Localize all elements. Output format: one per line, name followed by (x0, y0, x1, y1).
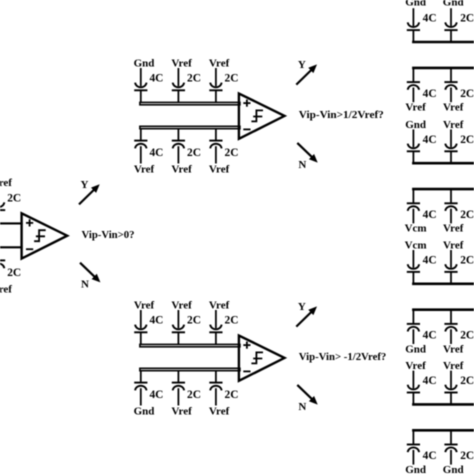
svg-text:Y: Y (81, 179, 89, 191)
capacitor 2C (A4 top cap 2) (444, 371, 457, 405)
capacitor 4C (A2 top cap 1) (407, 129, 420, 163)
svg-text:Vref: Vref (171, 406, 192, 418)
svg-text:Vref: Vref (443, 223, 464, 235)
svg-text:4C: 4C (423, 134, 437, 146)
capacitor 2C (A3 top cap 2) (444, 250, 457, 284)
capacitor 4C (A1 top cap 1) (407, 8, 420, 42)
svg-text:Vref: Vref (405, 360, 426, 372)
capacitor 2C (U2 bottom cap 3) (209, 129, 222, 164)
svg-text:Gnd: Gnd (405, 119, 426, 131)
svg-text:Vref: Vref (171, 164, 192, 176)
svg-text:Vref: Vref (134, 164, 155, 176)
svg-text:Vref: Vref (405, 102, 426, 114)
capacitor 2C (A4 bottom cap 2) (444, 430, 457, 464)
comparator U2 (239, 94, 285, 139)
arrow N (297, 143, 317, 163)
capacitor 2C (U1 bottom cap 3) (0, 249, 5, 284)
capacitor 4C (A3 bottom cap 1) (407, 310, 420, 344)
capacitor 2C (A2 bottom cap 2) (444, 189, 457, 223)
svg-text:2C: 2C (225, 147, 239, 159)
svg-text:4C: 4C (423, 375, 437, 387)
svg-text:Vref: Vref (0, 177, 12, 189)
capacitor 4C (A3 top cap 1) (407, 250, 420, 284)
stage-3 DAC array A4 (405, 360, 474, 474)
svg-text:Vref: Vref (443, 343, 464, 355)
svg-text:Vref: Vref (171, 299, 192, 311)
capacitor 2C (A2 top cap 2) (444, 129, 457, 163)
wire bottom-plate bus (A4) (412, 429, 474, 432)
capacitor 4C (A4 top cap 1) (407, 371, 420, 405)
svg-text:2C: 2C (225, 315, 239, 327)
stage-2 lower comparator block U3 (134, 299, 387, 417)
svg-text:2C: 2C (460, 209, 474, 221)
wire top-plate bus (A1) (412, 41, 474, 44)
svg-text:4C: 4C (423, 209, 437, 221)
svg-text:2C: 2C (460, 134, 474, 146)
comparator U1 (22, 213, 68, 258)
svg-text:2C: 2C (460, 375, 474, 387)
capacitor 2C (U2 bottom cap 2) (172, 129, 185, 164)
stage-1 comparator block U1 (clipped at left edge) (0, 177, 134, 295)
svg-text:2C: 2C (187, 73, 201, 85)
svg-text:Vref: Vref (209, 164, 230, 176)
svg-text:N: N (298, 401, 306, 413)
svg-text:Vref: Vref (171, 57, 192, 69)
svg-text:4C: 4C (423, 254, 437, 266)
svg-text:Vref: Vref (443, 239, 464, 251)
svg-text:Vref: Vref (209, 299, 230, 311)
capacitor 2C (U3 bottom cap 2) (172, 371, 185, 406)
svg-text:Vip-Vin>0?: Vip-Vin>0? (81, 229, 134, 241)
svg-text:2C: 2C (460, 254, 474, 266)
capacitor 2C (U3 top cap 3) (209, 310, 222, 344)
wire top-plate bus (U2) (140, 102, 240, 104)
svg-text:Gnd: Gnd (405, 0, 426, 8)
wire top-plate bus (U1) (0, 222, 23, 224)
svg-text:Y: Y (298, 301, 306, 313)
svg-text:2C: 2C (225, 73, 239, 85)
wire bottom-plate bus (U3) (140, 368, 240, 370)
svg-text:Vip-Vin> -1/2Vref?: Vip-Vin> -1/2Vref? (299, 351, 387, 363)
arrow N (80, 263, 100, 283)
svg-text:Vref: Vref (134, 299, 155, 311)
capacitor 2C (U2 top cap 2) (172, 68, 185, 102)
svg-text:Gnd: Gnd (405, 343, 426, 355)
stage-2 upper comparator block U2 (134, 57, 384, 175)
svg-text:2C: 2C (460, 450, 474, 462)
svg-text:Gnd: Gnd (443, 0, 464, 8)
wire bottom-plate bus (U1) (0, 246, 23, 248)
svg-text:Vref: Vref (443, 360, 464, 372)
capacitor 2C (A1 top cap 2) (444, 8, 457, 42)
capacitor 2C (A3 bottom cap 2) (444, 310, 457, 344)
svg-text:4C: 4C (423, 13, 437, 25)
svg-text:2C: 2C (7, 193, 21, 205)
capacitor 4C (A1 bottom cap 1) (407, 68, 420, 102)
wire bottom-plate bus (A3) (412, 308, 474, 311)
svg-text:2C: 2C (187, 147, 201, 159)
svg-text:Gnd: Gnd (134, 57, 155, 69)
arrow N (297, 385, 317, 405)
wire top-plate bus (A3) (412, 282, 474, 285)
svg-text:Gnd: Gnd (405, 464, 426, 474)
capacitor 2C (U3 top cap 2) (172, 310, 185, 344)
capacitor 2C (U2 top cap 3) (209, 68, 222, 102)
capacitor 2C (U1 top cap 3) (0, 188, 5, 222)
wire bottom-plate bus (A2) (412, 188, 474, 191)
capacitor 4C (A4 bottom cap 1) (407, 430, 420, 464)
svg-text:4C: 4C (149, 73, 163, 85)
svg-text:2C: 2C (460, 330, 474, 342)
arrow Y (296, 306, 317, 326)
svg-text:4C: 4C (149, 147, 163, 159)
wire top-plate bus (A4) (412, 403, 474, 406)
svg-text:Vref: Vref (209, 57, 230, 69)
capacitor 4C (A2 bottom cap 1) (407, 189, 420, 223)
capacitor 4C (U2 top cap 1) (134, 68, 147, 102)
svg-text:4C: 4C (423, 88, 437, 100)
wire bottom-plate bus (A1) (412, 67, 474, 70)
svg-text:4C: 4C (423, 330, 437, 342)
capacitor 2C (A1 bottom cap 2) (444, 68, 457, 102)
capacitor 4C (U3 bottom cap 1) (134, 371, 147, 406)
svg-text:Vcm: Vcm (405, 223, 427, 235)
svg-text:2C: 2C (460, 13, 474, 25)
svg-text:Gnd: Gnd (134, 406, 155, 418)
capacitor 4C (U2 bottom cap 1) (134, 129, 147, 164)
wire bottom-plate bus (U2) (140, 126, 240, 128)
svg-text:N: N (298, 159, 306, 171)
wire top-plate bus (A2) (412, 162, 474, 165)
svg-text:2C: 2C (187, 389, 201, 401)
svg-text:Gnd: Gnd (443, 464, 464, 474)
svg-text:4C: 4C (423, 450, 437, 462)
svg-text:Y: Y (298, 59, 306, 71)
capacitor 2C (U3 bottom cap 3) (209, 371, 222, 406)
svg-text:Vref: Vref (0, 283, 12, 295)
svg-text:2C: 2C (187, 315, 201, 327)
svg-text:4C: 4C (149, 389, 163, 401)
stage-3 DAC array A3 (405, 239, 474, 355)
arrow Y (296, 64, 317, 84)
wire top-plate bus (U3) (140, 344, 240, 346)
svg-text:Vref: Vref (209, 406, 230, 418)
capacitor 4C (U3 top cap 1) (134, 310, 147, 344)
comparator U3 (239, 336, 285, 381)
svg-text:Vip-Vin>1/2Vref?: Vip-Vin>1/2Vref? (299, 109, 384, 121)
svg-text:2C: 2C (460, 88, 474, 100)
stage-3 DAC array A1 (405, 0, 474, 113)
arrow Y (79, 184, 100, 204)
svg-text:2C: 2C (7, 267, 21, 279)
svg-text:Vref: Vref (443, 102, 464, 114)
svg-text:4C: 4C (149, 315, 163, 327)
svg-text:Vref: Vref (443, 119, 464, 131)
svg-text:2C: 2C (225, 389, 239, 401)
svg-text:N: N (81, 279, 89, 291)
svg-text:Vcm: Vcm (405, 239, 427, 251)
stage-3 DAC array A2 (405, 119, 474, 235)
